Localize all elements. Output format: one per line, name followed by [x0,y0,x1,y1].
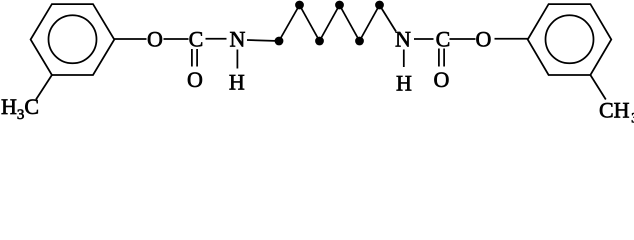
benzene ring left (hexagon) [31,4,115,75]
wire bond O1 to C1 [164,38,189,40]
chain carbon dot 4 [335,1,344,10]
bond N1 to H1 [236,50,238,69]
benzene ring left aromatic circle [49,15,97,63]
wire bond C1 to N1 [206,38,227,40]
chain carbon dot 1 [275,37,284,46]
wire bond O3 to ring2 [495,38,528,40]
svg-text:C: C [189,27,204,52]
svg-text:O: O [476,27,492,52]
svg-text:O: O [187,67,203,92]
wire bond N2 to C2 [414,38,434,40]
double bond C2=O4 [439,49,444,67]
bond ring2 to CH3 (methyl) [590,75,605,100]
svg-text:H: H [229,70,245,95]
bond ring1 to CH3 (methyl) [36,75,52,100]
wire bond C2 to O3 [450,38,476,40]
benzene ring right (hexagon) [528,4,612,75]
svg-text:O: O [147,27,163,52]
svg-text:CH3: CH3 [599,98,634,127]
chain carbon dot 6 [375,1,384,10]
chain carbon dot 2 [295,1,304,10]
chain carbon dot 3 [315,37,324,46]
svg-text:O: O [434,67,450,92]
svg-text:H: H [396,71,412,96]
svg-text:N: N [395,27,411,52]
chain zigzag bonds [279,5,396,41]
wire bond ring1 to O1 [114,38,146,40]
bond N2 to H2 [403,50,405,68]
chain carbon dot 5 [355,37,364,46]
wire bond N1 to chain [247,40,279,41]
double bond C1=O2 [192,49,197,67]
benzene ring right aromatic circle [546,15,594,63]
svg-text:C: C [436,27,451,52]
svg-text:N: N [230,27,246,52]
